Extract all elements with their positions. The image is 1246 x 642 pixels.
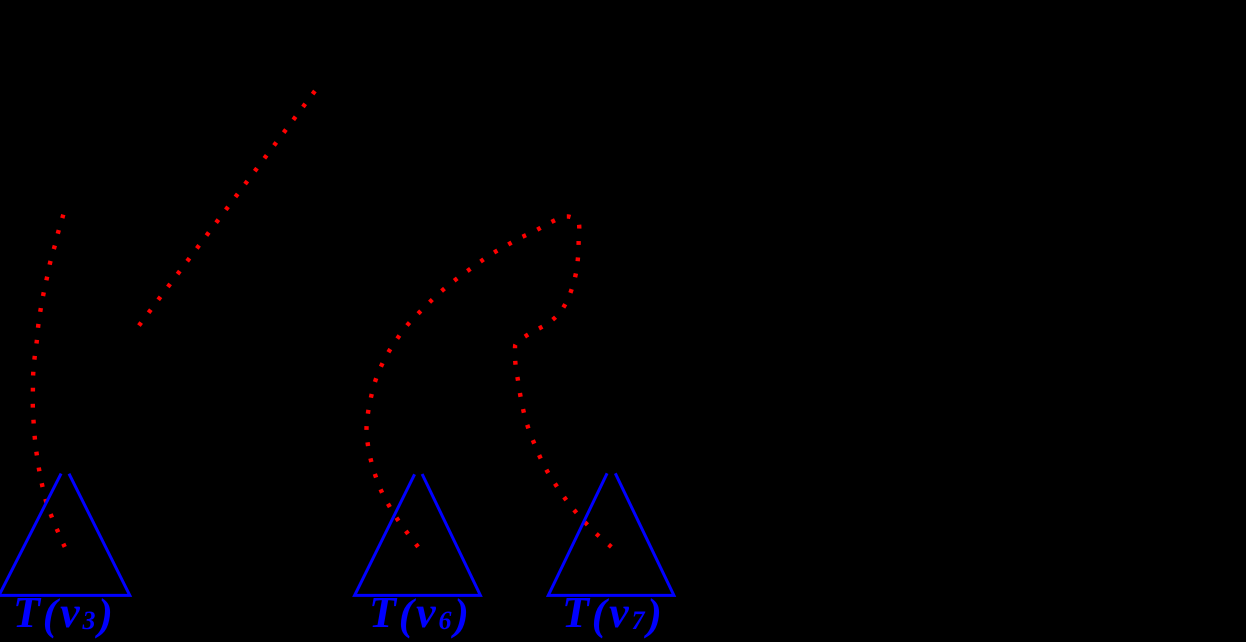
svg-text:T(v3): T(v3) (13, 588, 116, 639)
svg-text:T(v6): T(v6) (369, 588, 472, 639)
svg-text:T(v7): T(v7) (562, 588, 665, 639)
